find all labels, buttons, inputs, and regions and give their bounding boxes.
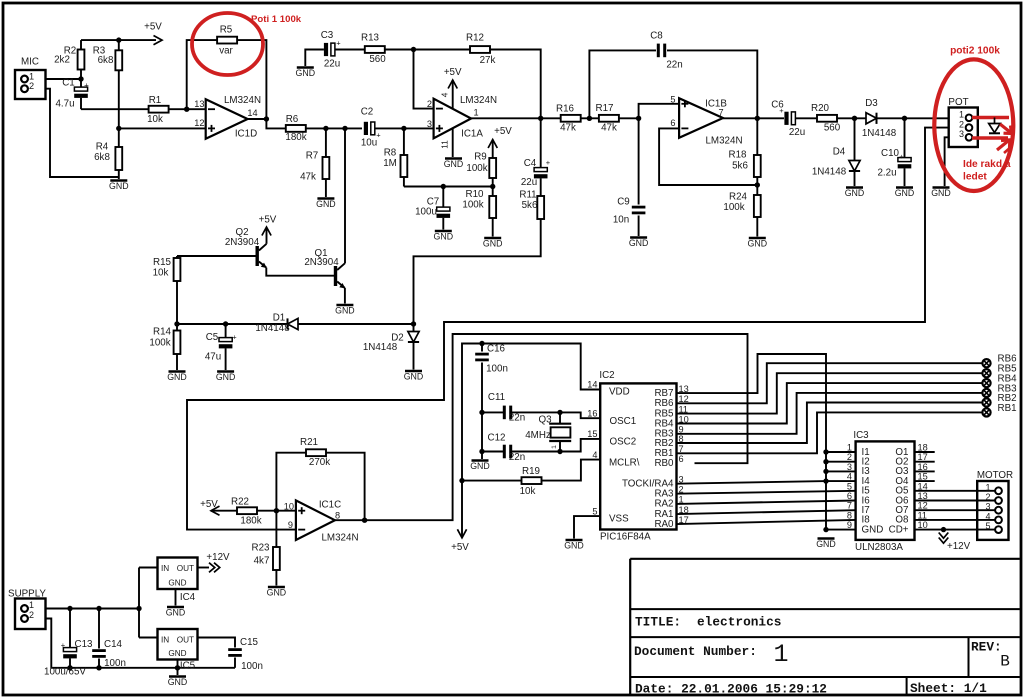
node C11/crystal	[557, 410, 562, 415]
svg-text:R5: R5	[220, 25, 233, 36]
svg-text:GND: GND	[168, 649, 186, 658]
node C13 top	[67, 606, 72, 611]
capacitor C1	[80, 79, 82, 87]
svg-text:180k: 180k	[285, 132, 306, 143]
svg-text:GND: GND	[166, 608, 186, 618]
wire MIC pin1 to node	[46, 78, 82, 80]
svg-text:100u: 100u	[415, 207, 437, 218]
ground R14	[169, 370, 186, 373]
capacitor C12	[482, 451, 504, 453]
wire RB4 to pad	[677, 383, 984, 423]
svg-text:VDD: VDD	[609, 386, 630, 397]
svg-text:13: 13	[918, 491, 928, 501]
svg-text:var: var	[219, 46, 233, 57]
node R13/R12/pin2	[411, 47, 416, 52]
svg-text:LM324N: LM324N	[224, 95, 261, 106]
op-amp IC1A	[434, 99, 472, 139]
ground R23	[268, 586, 285, 589]
svg-text:R9: R9	[474, 152, 487, 163]
svg-text:14: 14	[587, 380, 597, 390]
resistor R4	[115, 147, 122, 170]
svg-text:Document Number:: Document Number:	[634, 644, 757, 659]
svg-text:1N4148: 1N4148	[363, 342, 398, 353]
resistor R8	[403, 128, 405, 155]
svg-text:47k: 47k	[601, 123, 617, 134]
svg-text:Ide rakd a: Ide rakd a	[963, 159, 1011, 170]
pad RB4	[982, 379, 990, 387]
svg-text:3: 3	[847, 462, 852, 472]
IC2 VSS ground	[574, 516, 600, 538]
svg-text:R14: R14	[153, 327, 172, 338]
svg-text:1: 1	[773, 640, 788, 669]
ground POT	[933, 186, 950, 189]
resistor R21 feedback	[276, 453, 306, 511]
svg-text:6k8: 6k8	[94, 152, 110, 163]
resistor R24	[754, 195, 761, 217]
svg-text:4k7: 4k7	[254, 556, 270, 567]
svg-text:+: +	[232, 333, 237, 342]
node R9/R10	[490, 184, 495, 189]
svg-text:100n: 100n	[241, 661, 263, 672]
op-amp IC1A power pin 11	[452, 128, 454, 157]
svg-text:100n: 100n	[104, 658, 126, 669]
svg-text:4MHz: 4MHz	[525, 430, 551, 441]
node output/C4/R12	[538, 116, 543, 121]
transistor Q2	[177, 255, 257, 257]
ground IC3	[818, 537, 835, 540]
svg-text:1: 1	[29, 72, 34, 82]
svg-text:+: +	[336, 39, 341, 48]
svg-text:+: +	[61, 641, 66, 650]
svg-text:R1: R1	[149, 95, 162, 106]
node Q1 collector riser	[342, 126, 347, 131]
wire IC1B output	[723, 117, 784, 119]
svg-text:R20: R20	[811, 103, 830, 114]
svg-text:IN: IN	[161, 564, 169, 573]
wire POT pin3 to ground	[945, 137, 949, 186]
svg-text:12: 12	[918, 501, 928, 511]
node C14 bottom	[96, 665, 101, 670]
svg-text:+12V: +12V	[206, 552, 230, 563]
potentiometer R5 (var)	[187, 40, 217, 109]
svg-text:VSS: VSS	[609, 513, 629, 524]
node C7 top	[441, 184, 446, 189]
svg-text:R4: R4	[96, 142, 109, 153]
op-amp IC1D	[206, 99, 248, 139]
+12V supply motor	[939, 533, 949, 539]
svg-text:R6: R6	[286, 114, 299, 125]
wire RB1 to pad	[677, 412, 984, 453]
capacitor C16	[481, 344, 483, 352]
wire IC1A pin2 riser	[414, 50, 434, 109]
wire +5V net vertical	[462, 344, 600, 538]
resistor R20	[817, 115, 837, 122]
svg-text:4: 4	[441, 92, 450, 97]
pad RB3	[982, 389, 990, 397]
svg-text:GND: GND	[267, 588, 287, 598]
svg-text:3: 3	[427, 119, 432, 129]
node D3/C10	[902, 116, 907, 121]
resistor R7	[325, 128, 327, 157]
capacitor C15	[198, 638, 236, 648]
node R20/D4	[852, 116, 857, 121]
svg-text:R19: R19	[522, 466, 540, 477]
svg-text:IN: IN	[161, 636, 169, 645]
node regulator input riser	[136, 606, 141, 611]
svg-text:2k2: 2k2	[54, 55, 70, 66]
svg-text:2N3904: 2N3904	[304, 257, 339, 268]
svg-text:IC3: IC3	[853, 430, 869, 441]
svg-text:11: 11	[441, 140, 450, 149]
resistor R3	[115, 50, 122, 70]
connector MOTOR	[977, 481, 1008, 540]
svg-text:R7: R7	[306, 151, 319, 162]
wire O5-O8 to MOTOR	[915, 490, 996, 492]
svg-text:10k: 10k	[147, 114, 163, 125]
resistor R11	[537, 196, 544, 219]
svg-text:C1: C1	[62, 78, 75, 89]
wire C11-C12 ground leg	[481, 412, 483, 459]
svg-text:OUT: OUT	[177, 564, 194, 573]
svg-text:+: +	[546, 158, 551, 167]
svg-text:13: 13	[194, 99, 204, 109]
svg-text:TITLE:: TITLE:	[635, 615, 681, 630]
svg-text:electronics: electronics	[697, 615, 781, 630]
svg-text:16: 16	[587, 408, 597, 418]
node IC5 gnd	[175, 665, 180, 670]
svg-text:Q3: Q3	[538, 415, 552, 426]
voltage regulator IC4	[139, 567, 158, 569]
svg-text:47k: 47k	[300, 172, 316, 183]
ground R24	[749, 237, 766, 240]
capacitor C14	[98, 609, 100, 649]
node output/R21	[362, 518, 367, 523]
svg-text:7: 7	[847, 501, 852, 511]
svg-text:10n: 10n	[613, 215, 629, 226]
svg-text:5k6: 5k6	[522, 200, 538, 211]
svg-text:GND: GND	[816, 539, 836, 549]
capacitor C7	[442, 187, 444, 208]
voltage regulator IC5	[139, 637, 158, 639]
svg-text:LM324N: LM324N	[460, 95, 497, 106]
svg-text:3: 3	[959, 129, 964, 139]
resistor R15	[176, 256, 178, 258]
svg-text:10: 10	[918, 520, 928, 530]
svg-text:C5: C5	[206, 332, 219, 343]
svg-text:IC1A: IC1A	[461, 129, 483, 140]
svg-text:C14: C14	[104, 639, 123, 650]
wire supply pin1 rail	[46, 608, 140, 610]
node R17/C9/pin5	[636, 116, 641, 121]
svg-text:5: 5	[592, 506, 597, 516]
svg-text:Poti 1 100k: Poti 1 100k	[251, 14, 302, 25]
wire IC1A output row	[471, 117, 561, 119]
svg-text:5k6: 5k6	[732, 161, 748, 172]
svg-text:5: 5	[985, 521, 990, 531]
svg-text:22n: 22n	[666, 60, 682, 71]
node C16 tap	[479, 341, 484, 346]
node IC1B out/C8/R18	[755, 116, 760, 121]
svg-text:OUT: OUT	[177, 636, 194, 645]
svg-text:4: 4	[985, 511, 990, 521]
svg-text:IC2: IC2	[599, 370, 614, 381]
svg-text:poti2 100k: poti2 100k	[950, 46, 1000, 57]
node C12/C11 ground leg	[479, 449, 484, 454]
svg-text:17: 17	[918, 452, 928, 462]
IC3 ULN2803A box	[856, 441, 915, 540]
svg-text:+5V: +5V	[144, 22, 162, 33]
ground Q1	[336, 304, 353, 307]
connector POT	[949, 108, 978, 148]
ground D2	[405, 370, 422, 373]
svg-text:R15: R15	[153, 257, 172, 268]
svg-text:C3: C3	[321, 30, 334, 41]
svg-text:22u: 22u	[789, 127, 805, 138]
svg-text:CD+: CD+	[889, 524, 909, 535]
wire RB6 to pad	[677, 363, 984, 403]
svg-text:C2: C2	[361, 107, 374, 118]
svg-text:180k: 180k	[240, 516, 261, 527]
svg-text:GND: GND	[862, 524, 884, 535]
node R16/C8/R17	[587, 116, 592, 121]
wire net A row D1	[177, 323, 414, 325]
svg-text:4: 4	[592, 450, 597, 460]
svg-text:IC4: IC4	[180, 592, 196, 603]
svg-text:RB1: RB1	[998, 403, 1017, 414]
svg-text:22u: 22u	[521, 177, 537, 188]
resistor R12	[414, 49, 471, 51]
diode D1	[288, 318, 299, 329]
svg-text:C4: C4	[524, 158, 537, 169]
svg-text:C12: C12	[488, 433, 506, 444]
svg-text:C10: C10	[881, 148, 900, 159]
svg-text:14: 14	[918, 481, 928, 491]
svg-text:GND: GND	[629, 238, 649, 248]
svg-text:IC1D: IC1D	[235, 129, 257, 140]
svg-text:GND: GND	[168, 677, 188, 687]
svg-text:16: 16	[918, 462, 928, 472]
ground C9	[630, 236, 647, 239]
node R15/R14/netA	[174, 321, 179, 326]
wire RB3 to pad	[677, 393, 984, 434]
ground R7	[317, 197, 334, 200]
svg-text:47k: 47k	[560, 123, 576, 134]
node R19 tap	[459, 478, 464, 483]
svg-text:D3: D3	[865, 98, 878, 109]
svg-text:2.2u: 2.2u	[877, 168, 896, 179]
svg-text:100k: 100k	[149, 338, 170, 349]
wire pin12 row	[119, 127, 206, 129]
resistor R22	[211, 506, 220, 515]
svg-text:R18: R18	[729, 150, 748, 161]
svg-text:C16: C16	[487, 344, 506, 355]
svg-text:GND: GND	[748, 239, 768, 249]
svg-text:OSC2: OSC2	[610, 437, 637, 448]
diode D2	[413, 324, 415, 332]
svg-text:GND: GND	[470, 461, 490, 471]
svg-text:12: 12	[194, 118, 204, 128]
wire RA1 to IC3 I7	[677, 510, 856, 514]
svg-text:C8: C8	[650, 30, 663, 41]
svg-text:R13: R13	[361, 32, 380, 43]
svg-text:4.7u: 4.7u	[55, 99, 74, 110]
annotation LED symbol	[994, 118, 996, 124]
wire RA4 to IC3	[677, 481, 856, 484]
svg-text:C9: C9	[617, 197, 630, 208]
connector SUPPLY	[15, 599, 46, 630]
node R5/output	[264, 116, 269, 121]
ground IC4	[175, 589, 177, 606]
svg-text:8: 8	[847, 510, 852, 520]
svg-text:6: 6	[847, 491, 852, 501]
svg-text:GND: GND	[168, 579, 186, 588]
svg-text:100u/65V: 100u/65V	[44, 667, 86, 678]
capacitor C8 feedback loop	[589, 50, 656, 118]
wire RA3 to IC3 I5	[677, 491, 856, 494]
+12V supply IC4 output	[198, 567, 210, 569]
wire POT pin2 long net to IC1C pin9	[187, 128, 949, 530]
svg-text:GND: GND	[895, 188, 915, 198]
svg-text:GND: GND	[931, 188, 951, 198]
svg-text:MOTOR: MOTOR	[977, 470, 1013, 481]
transistor Q1	[334, 266, 337, 286]
resistor R17	[599, 115, 619, 122]
node R8 top	[401, 126, 406, 131]
svg-text:R16: R16	[556, 103, 575, 114]
node C12/crystal	[557, 449, 562, 454]
svg-text:R10: R10	[466, 189, 485, 200]
capacitor C13	[69, 609, 71, 648]
svg-text:ULN2803A: ULN2803A	[855, 542, 903, 553]
svg-text:2: 2	[959, 119, 964, 129]
resistor R10	[492, 187, 494, 197]
svg-text:+12V: +12V	[947, 541, 971, 552]
svg-text:1: 1	[551, 445, 558, 449]
svg-text:GND: GND	[216, 372, 236, 382]
svg-text:C13: C13	[75, 639, 94, 650]
svg-text:SUPPLY: SUPPLY	[8, 588, 46, 599]
svg-text:100k: 100k	[462, 200, 483, 211]
resistor R1	[149, 106, 169, 113]
resistor R2	[78, 50, 85, 70]
capacitor C9	[638, 118, 640, 204]
wire regulator riser	[138, 568, 140, 638]
wire CD+ to +12V and MOTOR	[915, 529, 996, 531]
svg-text:10k: 10k	[520, 486, 536, 497]
svg-text:GND: GND	[434, 232, 454, 242]
svg-text:8: 8	[335, 510, 340, 520]
diode D4	[854, 118, 856, 160]
resistor R6	[286, 125, 306, 132]
svg-text:11: 11	[918, 510, 928, 520]
svg-text:1: 1	[847, 443, 852, 453]
svg-text:MIC: MIC	[21, 57, 39, 68]
+5V supply arrow top-left	[154, 36, 163, 45]
wire IC1B pin6 feedback	[659, 128, 757, 185]
svg-text:IC1B: IC1B	[705, 98, 727, 109]
node C13 bottom	[67, 665, 72, 670]
+5V supply Q2	[262, 227, 271, 236]
svg-text:2: 2	[29, 610, 34, 620]
IC3 unconnected output stubs	[915, 451, 935, 453]
svg-text:15: 15	[587, 429, 597, 439]
op-amp IC1A power pin 4	[452, 80, 454, 109]
wire RB2 to pad	[677, 403, 984, 444]
svg-text:GND: GND	[564, 541, 584, 551]
svg-text:5: 5	[847, 481, 852, 491]
svg-text:C11: C11	[488, 392, 505, 403]
svg-text:D4: D4	[833, 147, 846, 158]
ground D4	[846, 186, 863, 189]
red annotation circle poti2	[934, 59, 1013, 191]
wire MIC pin2 to R4 bottom	[46, 89, 119, 177]
svg-text:IC1C: IC1C	[319, 500, 341, 511]
svg-text:27k: 27k	[480, 55, 496, 66]
svg-text:ledet: ledet	[963, 172, 987, 183]
node pin10/R21/R23	[274, 508, 279, 513]
capacitor C3	[324, 43, 328, 56]
svg-text:+5V: +5V	[451, 542, 469, 553]
svg-text:270k: 270k	[309, 457, 330, 468]
node R3/R4 junction	[116, 126, 121, 131]
ground C10	[896, 186, 913, 189]
svg-text:RB0: RB0	[654, 458, 674, 469]
op-amp IC1B	[679, 98, 723, 138]
svg-text:GND: GND	[404, 372, 424, 382]
svg-text:1N4148: 1N4148	[255, 323, 290, 334]
svg-text:+5V: +5V	[200, 499, 218, 510]
svg-text:+5V: +5V	[494, 126, 512, 137]
svg-text:R24: R24	[729, 192, 748, 203]
ground C3	[305, 50, 324, 67]
svg-text:RA0: RA0	[654, 519, 674, 530]
svg-text:GND: GND	[444, 159, 464, 169]
resistor R19	[462, 480, 522, 482]
svg-text:3: 3	[985, 502, 990, 512]
svg-text:560: 560	[824, 123, 841, 134]
wire RB7 to IC3 vertical	[677, 354, 827, 530]
svg-text:Sheet: 1/1: Sheet: 1/1	[910, 681, 987, 696]
red annotation arrows	[1000, 124, 1010, 132]
ground IC5	[177, 660, 179, 668]
ground C11 C12	[472, 459, 489, 462]
svg-text:OSC1: OSC1	[610, 416, 637, 427]
IC3 input stubs and junctions	[826, 451, 856, 453]
svg-text:22n: 22n	[509, 413, 525, 424]
svg-text:4: 4	[847, 472, 852, 482]
svg-text:+: +	[84, 81, 89, 90]
svg-text:R11: R11	[519, 189, 536, 200]
svg-text:2N3904: 2N3904	[225, 237, 260, 248]
svg-text:C15: C15	[240, 637, 259, 648]
svg-text:18: 18	[918, 443, 928, 453]
wire IC1D output	[248, 119, 286, 128]
wire RA0 to IC3 I8	[677, 520, 856, 524]
svg-text:6k8: 6k8	[98, 55, 114, 66]
pad RB1	[982, 408, 990, 416]
svg-text:+5V: +5V	[259, 215, 277, 226]
svg-text:GND: GND	[109, 181, 129, 191]
node R1/R5 junction	[184, 107, 189, 112]
svg-text:2: 2	[29, 81, 34, 91]
svg-text:REV:: REV:	[971, 640, 1002, 655]
svg-text:IC5: IC5	[180, 661, 196, 672]
svg-text:10u: 10u	[361, 138, 377, 149]
svg-text:2: 2	[427, 99, 432, 109]
svg-text:R22: R22	[231, 496, 249, 507]
+5V supply PIC area	[457, 529, 466, 538]
svg-text:1N4148: 1N4148	[862, 128, 897, 139]
